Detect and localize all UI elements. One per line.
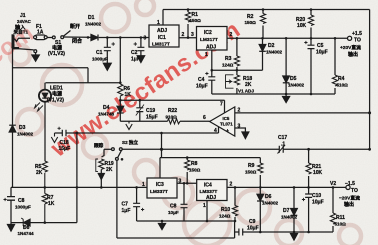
svg-text:(V1,V2): (V1,V2) bbox=[48, 51, 65, 57]
svg-text:10μF: 10μF bbox=[196, 84, 208, 90]
svg-text:1μF: 1μF bbox=[131, 57, 140, 63]
svg-text:D4: D4 bbox=[103, 105, 110, 111]
svg-text:1N4744: 1N4744 bbox=[18, 231, 35, 236]
svg-text:1A: 1A bbox=[37, 30, 44, 36]
svg-text:7: 7 bbox=[220, 102, 223, 108]
svg-text:C2: C2 bbox=[131, 50, 138, 56]
svg-text:2: 2 bbox=[230, 182, 233, 188]
svg-text:C7: C7 bbox=[122, 202, 129, 208]
svg-text:(V1,V2): (V1,V2) bbox=[47, 98, 64, 104]
svg-text:IC1: IC1 bbox=[158, 35, 166, 41]
svg-text:ADJ: ADJ bbox=[206, 195, 216, 201]
svg-text:输出: 输出 bbox=[344, 201, 354, 208]
svg-text:LM317T: LM317T bbox=[200, 37, 218, 43]
svg-text:2K: 2K bbox=[36, 170, 43, 176]
svg-text:1N4002: 1N4002 bbox=[281, 215, 298, 220]
svg-text:1: 1 bbox=[203, 203, 206, 209]
svg-text:输出: 输出 bbox=[348, 51, 358, 58]
svg-text:TO: TO bbox=[354, 38, 361, 44]
svg-text:C9: C9 bbox=[249, 219, 256, 225]
svg-text:3: 3 bbox=[238, 124, 241, 130]
svg-text:电源: 电源 bbox=[52, 91, 62, 98]
svg-text:R8: R8 bbox=[191, 161, 198, 167]
svg-text:D2: D2 bbox=[268, 43, 275, 49]
svg-text:15μF: 15μF bbox=[146, 115, 158, 121]
svg-text:C10: C10 bbox=[312, 193, 321, 199]
svg-text:1μF: 1μF bbox=[122, 208, 131, 214]
svg-text:2K: 2K bbox=[106, 167, 113, 173]
svg-text:1000μF: 1000μF bbox=[92, 57, 108, 62]
svg-text:1N4002: 1N4002 bbox=[266, 50, 283, 55]
svg-text:IC4: IC4 bbox=[204, 183, 212, 189]
svg-text:3: 3 bbox=[179, 179, 182, 185]
svg-text:S2 独立: S2 独立 bbox=[122, 139, 138, 146]
svg-text:1K: 1K bbox=[125, 92, 132, 98]
svg-text:−1.5: −1.5 bbox=[345, 181, 355, 187]
svg-text:ADJ: ADJ bbox=[157, 28, 167, 34]
svg-text:10μF: 10μF bbox=[168, 210, 179, 215]
svg-text:闭合: 闭合 bbox=[72, 38, 83, 45]
svg-text:R11: R11 bbox=[336, 215, 345, 221]
svg-text:1: 1 bbox=[205, 52, 208, 58]
svg-text:2K: 2K bbox=[245, 82, 252, 88]
svg-text:150Ω: 150Ω bbox=[245, 170, 257, 175]
svg-text:150Ω: 150Ω bbox=[245, 20, 257, 25]
svg-text:D1: D1 bbox=[88, 15, 95, 21]
svg-text:断开: 断开 bbox=[70, 23, 80, 30]
svg-text:1000μF: 1000μF bbox=[15, 205, 31, 210]
svg-text:LM317T: LM317T bbox=[152, 42, 170, 48]
svg-text:+20V直流: +20V直流 bbox=[340, 44, 361, 51]
svg-text:R10: R10 bbox=[221, 207, 230, 213]
svg-text:10μF: 10μF bbox=[247, 226, 259, 232]
svg-text:C18: C18 bbox=[60, 140, 69, 146]
svg-text:510Ω: 510Ω bbox=[335, 222, 347, 227]
svg-text:10μF: 10μF bbox=[312, 200, 324, 206]
svg-text:510Ω: 510Ω bbox=[337, 83, 349, 88]
svg-text:C5: C5 bbox=[317, 43, 324, 49]
svg-text:1: 1 bbox=[157, 20, 160, 26]
svg-text:10K: 10K bbox=[313, 170, 323, 176]
svg-text:1: 1 bbox=[142, 182, 145, 188]
svg-text:150Ω: 150Ω bbox=[190, 18, 202, 23]
svg-text:10μF: 10μF bbox=[316, 50, 328, 56]
svg-text:+: + bbox=[226, 129, 229, 135]
svg-text:10K: 10K bbox=[297, 23, 307, 29]
svg-text:V1 ADJ: V1 ADJ bbox=[238, 89, 254, 94]
svg-text:C1: C1 bbox=[96, 50, 103, 56]
svg-text:.1: .1 bbox=[281, 142, 285, 148]
svg-text:1N4002: 1N4002 bbox=[288, 83, 305, 88]
svg-text:124Ω: 124Ω bbox=[219, 214, 231, 219]
svg-text:1N4002: 1N4002 bbox=[85, 22, 102, 27]
svg-text:TO: TO bbox=[351, 188, 358, 194]
svg-text:1N4748: 1N4748 bbox=[98, 112, 115, 117]
svg-text:C8: C8 bbox=[170, 204, 177, 210]
svg-text:R22: R22 bbox=[168, 108, 177, 114]
svg-text:2: 2 bbox=[230, 32, 233, 38]
svg-text:910Ω: 910Ω bbox=[166, 115, 178, 120]
svg-text:IC5: IC5 bbox=[223, 116, 230, 121]
svg-text:跟踪: 跟踪 bbox=[94, 142, 104, 149]
svg-text:C19: C19 bbox=[146, 108, 155, 114]
svg-text:D3: D3 bbox=[19, 125, 26, 131]
svg-text:C4: C4 bbox=[198, 77, 205, 83]
svg-text:C8: C8 bbox=[18, 198, 25, 204]
svg-text:R4: R4 bbox=[338, 76, 345, 82]
svg-text:2: 2 bbox=[182, 32, 185, 38]
svg-text:LM337T: LM337T bbox=[150, 189, 168, 195]
svg-text:+1.5: +1.5 bbox=[352, 31, 362, 37]
svg-text:C17: C17 bbox=[278, 135, 287, 141]
svg-text:ADJ: ADJ bbox=[206, 45, 216, 51]
svg-text:124Ω: 124Ω bbox=[222, 63, 234, 68]
svg-text:D6: D6 bbox=[265, 194, 272, 200]
svg-text:15μF: 15μF bbox=[59, 146, 71, 152]
svg-text:IC2: IC2 bbox=[204, 30, 212, 36]
svg-text:D7: D7 bbox=[283, 208, 290, 214]
svg-text:V2: V2 bbox=[330, 181, 336, 187]
svg-text:D5: D5 bbox=[290, 76, 297, 82]
svg-text:TL071: TL071 bbox=[220, 122, 233, 127]
svg-text:IC3: IC3 bbox=[156, 182, 164, 188]
svg-text:24VAC: 24VAC bbox=[17, 19, 32, 24]
svg-text:1N4002: 1N4002 bbox=[262, 201, 279, 206]
svg-text:2: 2 bbox=[238, 108, 241, 114]
svg-text:R9: R9 bbox=[248, 163, 255, 169]
svg-text:−20V直流: −20V直流 bbox=[339, 195, 360, 202]
svg-text:3: 3 bbox=[191, 32, 194, 38]
svg-text:1N4002: 1N4002 bbox=[17, 132, 34, 137]
svg-text:1K: 1K bbox=[48, 201, 55, 207]
svg-text:R3: R3 bbox=[225, 56, 232, 62]
svg-text:4: 4 bbox=[214, 128, 217, 134]
svg-text:6: 6 bbox=[203, 115, 206, 121]
svg-text:3: 3 bbox=[144, 36, 147, 42]
svg-text:150Ω: 150Ω bbox=[189, 168, 201, 173]
svg-text:来自T1: 来自T1 bbox=[13, 28, 29, 35]
